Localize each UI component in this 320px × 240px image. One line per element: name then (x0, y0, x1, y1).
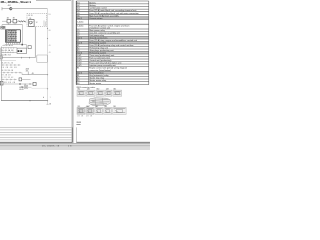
wire row D (3, 83, 33, 84)
leader line a (84, 106, 90, 108)
svg-text:Grd 1: Grd 1 (77, 17, 83, 20)
svg-text:4B1: 4B1 (8, 5, 11, 7)
wire: feeder line (2, 24, 23, 26)
wire: junction row 1 upper (5, 44, 27, 48)
wire: junction row 2 with bumps (1, 52, 17, 53)
right page bottom edge (76, 141, 150, 143)
svg-text:C-4(m): C-4(m) (77, 25, 84, 27)
connector row B (1, 70, 22, 73)
svg-text:4B 4B: 4B 4B (86, 116, 92, 118)
connector row C (1, 77, 17, 80)
cropped text remnant top (36, 0, 71, 2)
pin ticks below block (7, 42, 20, 44)
svg-text:4B 1B: 4B 1B (28, 15, 32, 17)
bus end tick (47, 103, 49, 105)
wire: bottom return (1, 100, 47, 101)
connector pin block U1 (6, 30, 21, 43)
terminal box left (0, 56, 2, 59)
svg-text:Fuse (15 A) main block unit, s: Fuse (15 A) main block unit, secondary t… (89, 9, 137, 12)
inline component row C (19, 78, 31, 81)
contact blob b (20, 50, 22, 52)
arrow marks (19, 21, 21, 23)
stray junction dot (43, 97, 44, 98)
wire: connector to bus faint (28, 86, 32, 88)
wire: feeder drop right (22, 25, 24, 45)
light annotation box (37, 55, 48, 62)
wire: junction row 1 with bumps (1, 47, 17, 48)
junction dots on bus (47, 28, 48, 101)
legend table (76, 1, 149, 85)
relay K1 inside junction block (29, 20, 35, 27)
connector pair symbols (1, 26, 3, 29)
svg-text:4B/4B: 4B/4B (19, 89, 23, 91)
inline component row D (33, 82, 36, 85)
svg-text:1: 1 (50, 97, 51, 99)
svg-text:4 B: 4 B (68, 145, 72, 147)
svg-text:1B 2B 3B 4B: 1B 2B 3B 4B (1, 70, 13, 72)
svg-text:Current values: Current values (89, 17, 102, 20)
left bus of junction rows (0, 48, 2, 58)
connector row A (1, 61, 21, 65)
wire: row B to bus (22, 73, 48, 75)
page code sub mark (76, 123, 80, 126)
fuse box F1 (7, 19, 11, 23)
component strokes inside dashed box right (44, 21, 46, 27)
wire drops from fuse boxes (8, 23, 10, 25)
thumbnail row 1 (77, 88, 122, 97)
wire through fuse boxes (2, 20, 26, 22)
faint rule below junction rows (0, 60, 16, 62)
svg-text:4B 4B 4B: 4B 4B 4B (1, 75, 11, 77)
footer table light rules (0, 127, 72, 139)
svg-text:4B 4B: 4B 4B (77, 116, 83, 118)
connector symbol cluster (22, 84, 28, 89)
wire: relay drop (34, 27, 36, 58)
relay frame box (17, 48, 27, 53)
battery G1 symbol (10, 7, 12, 10)
wire: left bus full height (0, 47, 2, 101)
small label cluster right (26, 67, 30, 74)
page background (0, 0, 150, 150)
wire: top supply line (2, 8, 48, 10)
svg-text:4B 4B 4B 4B: 4B 4B 4B 4B (1, 67, 17, 69)
svg-text:1C 2C 3C 4C: 1C 2C 3C 4C (1, 77, 14, 79)
svg-text:4B: 4B (24, 84, 26, 86)
thumbnail row 3 (77, 106, 126, 114)
svg-text:Battery: Battery (89, 1, 96, 4)
leader line b (95, 106, 98, 108)
wire: junction row 3 long (1, 57, 36, 59)
svg-text:Starter motor relay: Starter motor relay (89, 79, 107, 82)
svg-text:4B+, 2B4B9+, Sheet 1: 4B+, 2B4B9+, Sheet 1 (0, 0, 31, 4)
wire: right vertical bus (47, 9, 49, 105)
bottom gray strip (0, 143, 150, 150)
dashed box: junction block J/B (27, 14, 47, 27)
terminal tick left (1, 7, 3, 10)
svg-text:Starter motor: Starter motor (89, 82, 101, 85)
contact blob a (18, 50, 20, 52)
terminal box row D (0, 82, 3, 86)
svg-text:Battery: Battery (89, 4, 96, 7)
footer table bottom border / left page bottom edge (0, 141, 72, 143)
right page left edge lower (75, 127, 77, 142)
label cluster below row D (19, 87, 24, 91)
svg-text:Injection pump assembly unit: Injection pump assembly unit (89, 64, 116, 67)
svg-text:Fuse (30 A) secondary block un: Fuse (30 A) secondary block unit with ma… (89, 12, 139, 15)
page gap divider band (72, 0, 74, 143)
svg-text:Combination switch: Combination switch (89, 7, 107, 10)
svg-text:4B 4B 4B: 4B 4B 4B (4, 82, 16, 84)
svg-text:connector (listed below): connector (listed below) (89, 69, 111, 72)
thumbnail central sketch (89, 98, 111, 106)
svg-text:C-4(m): C-4(m) (77, 22, 84, 24)
small box right of row 1 (28, 46, 31, 49)
footer table right border (71, 127, 73, 142)
fuse box F2 (13, 19, 17, 23)
svg-text:4B+ 2B4B9+ 1B: 4B+ 2B4B9+ 1B (42, 145, 60, 147)
